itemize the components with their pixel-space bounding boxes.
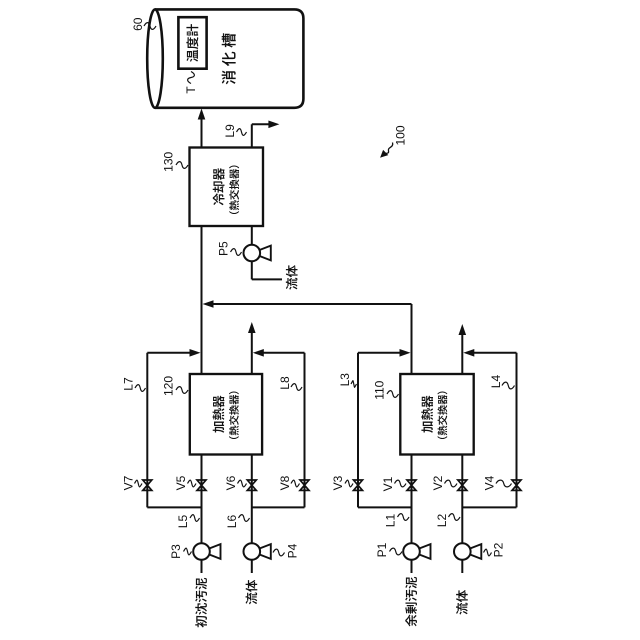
leader squiggle P1 (390, 548, 403, 555)
arrow L8 into fluid line (253, 349, 264, 357)
svg-text:V5: V5 (174, 475, 188, 490)
arrow into digestion tank (198, 109, 206, 120)
wire P3 to heater 120 (201, 455, 203, 543)
arrow fluid discharge 120 (248, 322, 256, 333)
valve V1 (407, 480, 416, 490)
svg-text:L1: L1 (384, 514, 398, 528)
pump P5 (244, 245, 271, 262)
svg-text:L8: L8 (278, 376, 292, 390)
leader squiggle L9 (237, 129, 247, 136)
svg-text:P4: P4 (286, 543, 300, 558)
label 冷却器 in cooler (213, 168, 225, 205)
wire L3 feed riser (358, 506, 412, 508)
svg-text:L6: L6 (225, 515, 239, 529)
wire L9 run (251, 124, 253, 147)
wire L8 bypass line (304, 353, 306, 508)
leader squiggle V4 (496, 480, 512, 487)
leader squiggle L4 (502, 382, 515, 389)
svg-text:110: 110 (372, 380, 386, 399)
leader squiggle L7 (135, 385, 146, 392)
svg-text:V6: V6 (224, 475, 238, 490)
leader squiggle V1 (395, 480, 407, 487)
wire stub into pump P3 (201, 560, 203, 573)
leader squiggle V7 (135, 480, 143, 487)
leader squiggle T (188, 72, 195, 84)
wire P5 to cooler (251, 226, 253, 244)
svg-text:L7: L7 (122, 377, 136, 391)
leader squiggle P5 (231, 249, 242, 256)
leader squiggle L8 (291, 384, 302, 391)
label (熱交換器) in heater 110 (437, 391, 447, 439)
leader squiggle V5 (188, 480, 197, 487)
leader squiggle V3 (345, 480, 353, 487)
label (熱交換器) in heater 120 (229, 391, 239, 439)
label 消化槽 (222, 33, 236, 84)
leader squiggle L6 (239, 515, 250, 522)
node 流体 source label for P4 (246, 580, 258, 605)
leader squiggle P4 (273, 549, 285, 556)
label (熱交換器) in cooler (229, 165, 239, 214)
leader squiggle L3 (351, 381, 357, 388)
wire P4 to heater 120 (251, 455, 253, 543)
svg-text:V1: V1 (381, 476, 395, 491)
leader squiggle 110 (387, 391, 399, 398)
svg-text:P3: P3 (169, 544, 183, 559)
wire L4 feed drop (462, 506, 516, 508)
heat exchanger box 110 (400, 374, 473, 455)
digestion tank top ellipse (147, 9, 163, 107)
svg-text:L5: L5 (176, 515, 190, 529)
svg-text:100: 100 (394, 125, 408, 145)
wire L7 bypass line (146, 353, 148, 508)
node 流体 source label for P2 (456, 590, 468, 615)
svg-text:L2: L2 (435, 514, 449, 528)
leader squiggle L5 (190, 515, 200, 522)
svg-text:130: 130 (162, 151, 176, 171)
arrow L3 into sludge line (400, 349, 411, 357)
wire P2 to heater 110 (461, 455, 463, 543)
svg-text:L4: L4 (489, 375, 503, 389)
pump P1 (403, 543, 430, 560)
leader squiggle 130 (176, 162, 188, 169)
wire stub into pump P1 (411, 560, 413, 573)
leader squiggle L1 (398, 514, 410, 521)
svg-text:L9: L9 (223, 124, 237, 138)
valve V8 (300, 480, 309, 490)
arrow fluid discharge 110 (459, 324, 467, 335)
valve V2 (458, 480, 467, 490)
leader squiggle P2 (484, 549, 492, 556)
wire L7 feed riser (147, 506, 201, 508)
arrow collector into trunk (203, 300, 214, 308)
arrow L7 into sludge line (190, 349, 201, 357)
wire fluid discharge heater 110 (461, 334, 463, 374)
svg-text:T: T (184, 86, 198, 94)
valve V3 (354, 480, 363, 490)
wire into pump P5 (251, 262, 253, 280)
wire sludge trunk heater120 to cooler (201, 226, 203, 374)
leader squiggle V2 (445, 480, 458, 487)
node 余剰汚泥 source label (405, 577, 417, 627)
wire L7 return drop (147, 352, 196, 354)
pump P3 (193, 543, 220, 560)
wire L9 drop (252, 123, 270, 125)
svg-text:V4: V4 (482, 475, 496, 490)
leader squiggle L2 (449, 514, 461, 521)
valve V6 (247, 480, 256, 490)
valve V4 (512, 480, 521, 490)
svg-text:P5: P5 (217, 241, 231, 256)
wire collector riser (206, 303, 412, 305)
label 加熱器 in heater 120 (213, 395, 225, 432)
wire L8 return riser (257, 352, 305, 354)
valve V7 (143, 480, 152, 490)
svg-text:P2: P2 (492, 542, 506, 557)
svg-text:V7: V7 (122, 475, 136, 490)
cooler box 130 (190, 148, 264, 227)
svg-text:V2: V2 (431, 475, 445, 490)
label 加熱器 in heater 110 (421, 395, 433, 432)
wire L4 bypass line (516, 353, 518, 508)
leader squiggle 60 (144, 23, 156, 30)
node 流体 source label for P5 (286, 265, 298, 290)
wire L8 feed drop (252, 506, 305, 508)
svg-text:V3: V3 (331, 475, 345, 490)
valve V5 (197, 480, 206, 490)
wire L4 return riser (467, 352, 516, 354)
wire L3 bypass line (357, 353, 359, 508)
thermometer box 温度計 (178, 17, 206, 69)
wire stub into pump P4 (251, 560, 253, 573)
svg-text:L3: L3 (338, 373, 352, 387)
svg-text:60: 60 (131, 17, 145, 31)
wire L3 return drop (358, 352, 407, 354)
wire fluid discharge heater 120 (251, 332, 253, 374)
leader squiggle 120 (176, 387, 188, 394)
pump P2 (454, 543, 481, 560)
wire sludge exit heater 110 (411, 304, 413, 374)
svg-text:V8: V8 (278, 475, 292, 490)
wire P1 to heater 110 (411, 455, 413, 543)
leader squiggle P3 (184, 548, 192, 555)
arrow L4 into fluid line (463, 349, 474, 357)
leader arrow 100 (384, 143, 393, 155)
digestion tank 60 body (155, 9, 303, 107)
label 温度計 (186, 24, 198, 62)
leader squiggle V6 (238, 480, 247, 487)
heat exchanger box 120 (190, 374, 262, 455)
wire trunk into tank (201, 119, 203, 148)
wire 流体 riser for P5 (252, 278, 282, 280)
svg-text:P1: P1 (375, 542, 389, 557)
node 初沈汚泥 source label (195, 578, 207, 628)
arrow L9 outlet (268, 121, 279, 129)
leader squiggle V8 (291, 480, 300, 487)
svg-text:120: 120 (162, 376, 176, 396)
wire stub into pump P2 (461, 560, 463, 573)
pump P4 (244, 543, 271, 560)
